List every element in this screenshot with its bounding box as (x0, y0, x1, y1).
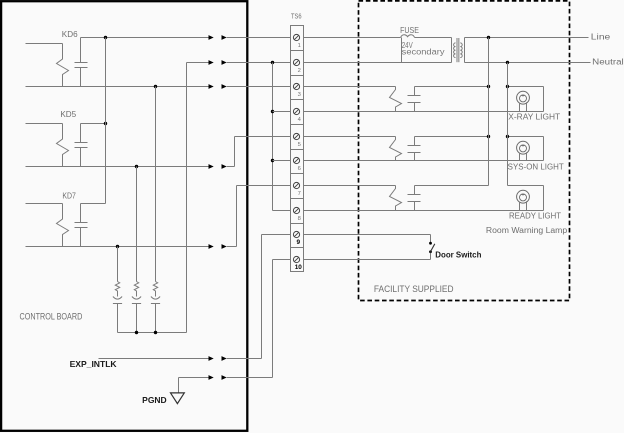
svg-text:TS6: TS6 (291, 12, 302, 21)
svg-text:KD5: KD5 (60, 110, 76, 119)
svg-text:secondary: secondary (402, 48, 445, 57)
svg-text:6: 6 (298, 166, 301, 172)
svg-text:X-RAY LIGHT: X-RAY LIGHT (508, 112, 560, 121)
svg-text:10: 10 (295, 264, 303, 271)
svg-text:9: 9 (297, 239, 301, 246)
svg-text:2: 2 (298, 68, 301, 74)
svg-text:1: 1 (298, 43, 301, 49)
svg-text:Line: Line (591, 31, 611, 41)
svg-text:7: 7 (298, 191, 301, 197)
svg-text:READY LIGHT: READY LIGHT (509, 211, 561, 220)
svg-text:KD7: KD7 (62, 191, 76, 200)
svg-text:Room Warning Lamp: Room Warning Lamp (486, 226, 568, 235)
svg-text:CONTROL BOARD: CONTROL BOARD (20, 311, 83, 321)
svg-text:8: 8 (298, 216, 301, 222)
svg-text:FACILITY SUPPLIED: FACILITY SUPPLIED (374, 284, 454, 294)
svg-text:KD6: KD6 (62, 30, 78, 39)
svg-text:EXP_INTLK: EXP_INTLK (70, 359, 117, 369)
svg-text:Neutral: Neutral (592, 56, 624, 66)
svg-text:FUSE: FUSE (400, 25, 419, 35)
svg-text:Door Switch: Door Switch (435, 250, 481, 260)
svg-text:PGND: PGND (142, 395, 167, 405)
svg-text:5: 5 (298, 142, 301, 148)
svg-text:3: 3 (298, 92, 301, 98)
svg-text:SYS-ON LIGHT: SYS-ON LIGHT (508, 162, 564, 171)
